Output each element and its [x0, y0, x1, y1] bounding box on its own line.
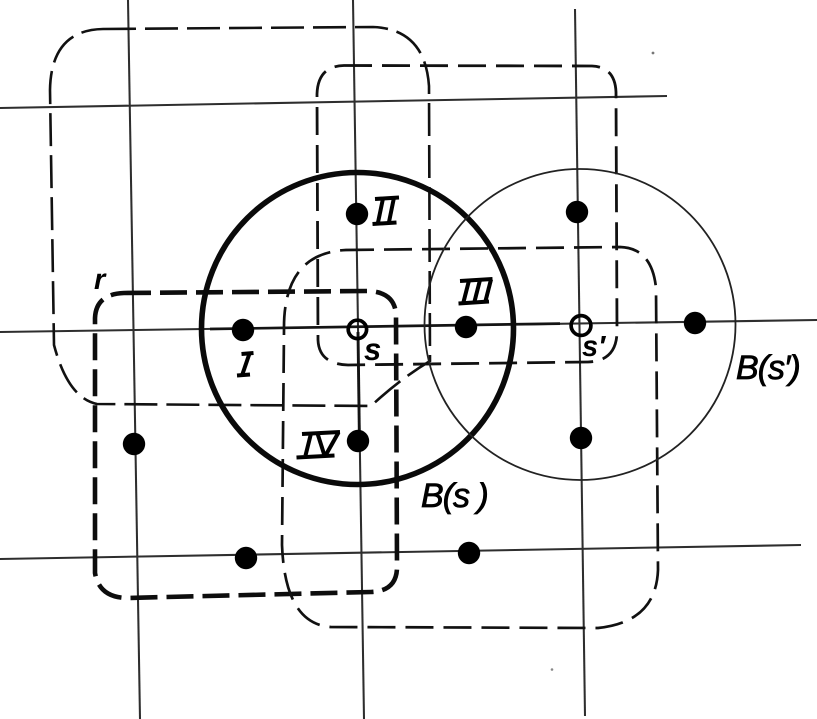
grid overdraw: darker V2 segment below s	[358, 332, 360, 446]
lattice dot I (left of s)	[232, 319, 254, 341]
lattice dot II (above s)	[346, 203, 368, 225]
thin circle B(s')	[425, 169, 736, 480]
label r (half side of square)	[95, 273, 107, 289]
lattice dot below s'	[570, 427, 592, 449]
thick circle B(s)	[202, 173, 514, 485]
label I (roman numeral)	[237, 353, 254, 376]
label B(s')	[737, 354, 799, 386]
dashed rounded square Q4 (bottom-right cell)	[282, 247, 658, 628]
lattice dot IV (below s)	[347, 430, 369, 452]
lattice dot III (right of s)	[455, 316, 477, 338]
lattice dot left-bottom	[123, 433, 145, 455]
grid line V1 (left vertical)	[128, 0, 140, 719]
lattice dot bottom row left	[235, 547, 257, 569]
grid line H1 (top horizontal)	[0, 96, 667, 108]
center marker s' (open ring on grid crossing)	[571, 316, 591, 336]
grid line V3 (right vertical through s')	[575, 9, 585, 716]
dashed rounded square Q2 (top-right cell)	[317, 66, 617, 366]
grid line H2 (middle horizontal through s and s')	[0, 320, 817, 332]
label s (center of B(s))	[364, 343, 380, 360]
lattice dot above s'	[566, 201, 588, 223]
label II (roman numeral)	[373, 198, 400, 225]
label s' (center of B(s'))	[582, 336, 606, 356]
lattice dot bottom row right	[458, 542, 480, 564]
label IV (roman numeral)	[297, 432, 341, 458]
lattice dot right of s'	[684, 312, 706, 334]
grid line V2 (middle vertical through s)	[353, 0, 364, 719]
label III (roman numeral)	[459, 279, 493, 304]
thick dashed rounded square Q3 (bottom-left cell, side 2r)	[95, 291, 397, 598]
grid overdraw: darker H2 segment through B(s)	[210, 324, 560, 329]
scan speck bottom middle	[551, 668, 554, 671]
scan speck top right	[652, 52, 655, 55]
grid line H3 (bottom horizontal)	[0, 545, 801, 559]
label B(s)	[422, 482, 487, 514]
dashed rounded square Q1 (top-left cell)	[50, 27, 430, 406]
center marker s (open ring on grid crossing)	[348, 320, 366, 338]
